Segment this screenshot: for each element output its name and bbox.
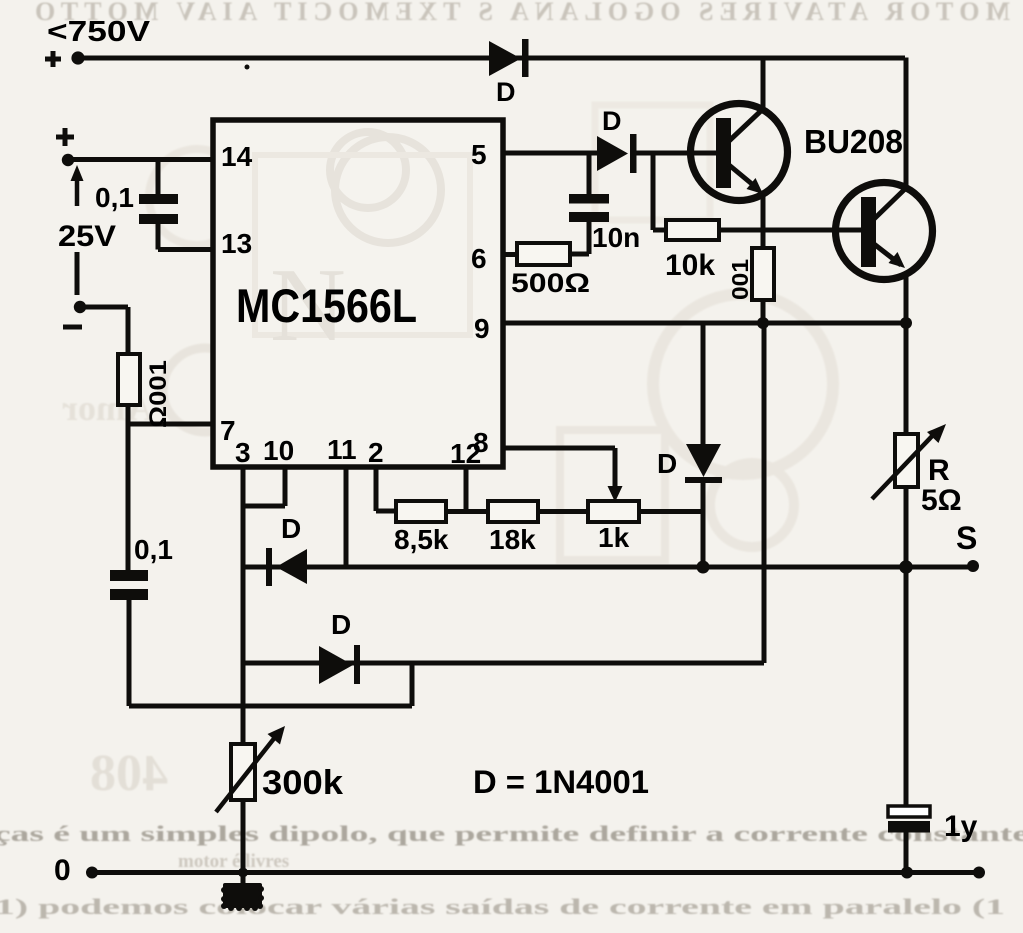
svg-text:14: 14 (221, 141, 253, 172)
svg-text:7: 7 (220, 415, 236, 446)
svg-text:D: D (602, 106, 622, 136)
svg-text:10n: 10n (592, 222, 640, 253)
svg-text:D: D (281, 513, 301, 544)
svg-text:BU208: BU208 (804, 123, 903, 160)
svg-text:1) podemos colocar várias saíd: 1) podemos colocar várias saídas de corr… (0, 894, 1005, 919)
svg-text:0: 0 (54, 854, 71, 887)
svg-text:5Ω: 5Ω (921, 484, 962, 517)
svg-text:6: 6 (471, 243, 487, 274)
svg-text:D: D (331, 609, 351, 640)
svg-text:18k: 18k (489, 524, 536, 555)
svg-text:8,5k: 8,5k (394, 524, 449, 555)
svg-text:MC1566L: MC1566L (236, 279, 417, 332)
svg-text:0,1: 0,1 (134, 534, 173, 565)
svg-text:R: R (928, 454, 950, 487)
svg-text:Ω001: Ω001 (145, 360, 172, 428)
svg-text:10: 10 (263, 435, 294, 466)
svg-text:S: S (956, 520, 977, 556)
svg-text:1k: 1k (598, 522, 630, 553)
svg-text:408: 408 (90, 745, 168, 802)
svg-text:2: 2 (368, 437, 384, 468)
svg-text:ças é um simples dipolo, que p: ças é um simples dipolo, que permite def… (0, 821, 1023, 846)
svg-text:500Ω: 500Ω (511, 268, 590, 298)
svg-text:3: 3 (235, 437, 251, 468)
svg-text:11: 11 (327, 434, 357, 465)
svg-text:<750V: <750V (47, 16, 151, 48)
svg-text:MOTOR ATAVIRES OGOLANA S TXEMO: MOTOR ATAVIRES OGOLANA S TXEMOCIT AIAV M… (35, 0, 1010, 26)
svg-text:9: 9 (474, 313, 490, 344)
svg-text:8: 8 (473, 427, 489, 458)
svg-text:1y: 1y (944, 810, 978, 843)
svg-text:D: D (657, 448, 677, 479)
svg-text:motor é livres: motor é livres (178, 851, 289, 872)
svg-text:13: 13 (221, 228, 252, 259)
svg-text:300k: 300k (262, 764, 343, 802)
svg-text:001: 001 (727, 259, 753, 300)
svg-text:25V: 25V (58, 220, 116, 253)
svg-text:10k: 10k (665, 249, 715, 282)
svg-text:0,1: 0,1 (95, 182, 134, 213)
svg-text:5: 5 (471, 139, 487, 170)
svg-text:D = 1N4001: D = 1N4001 (473, 764, 649, 800)
svg-text:D: D (496, 77, 516, 107)
